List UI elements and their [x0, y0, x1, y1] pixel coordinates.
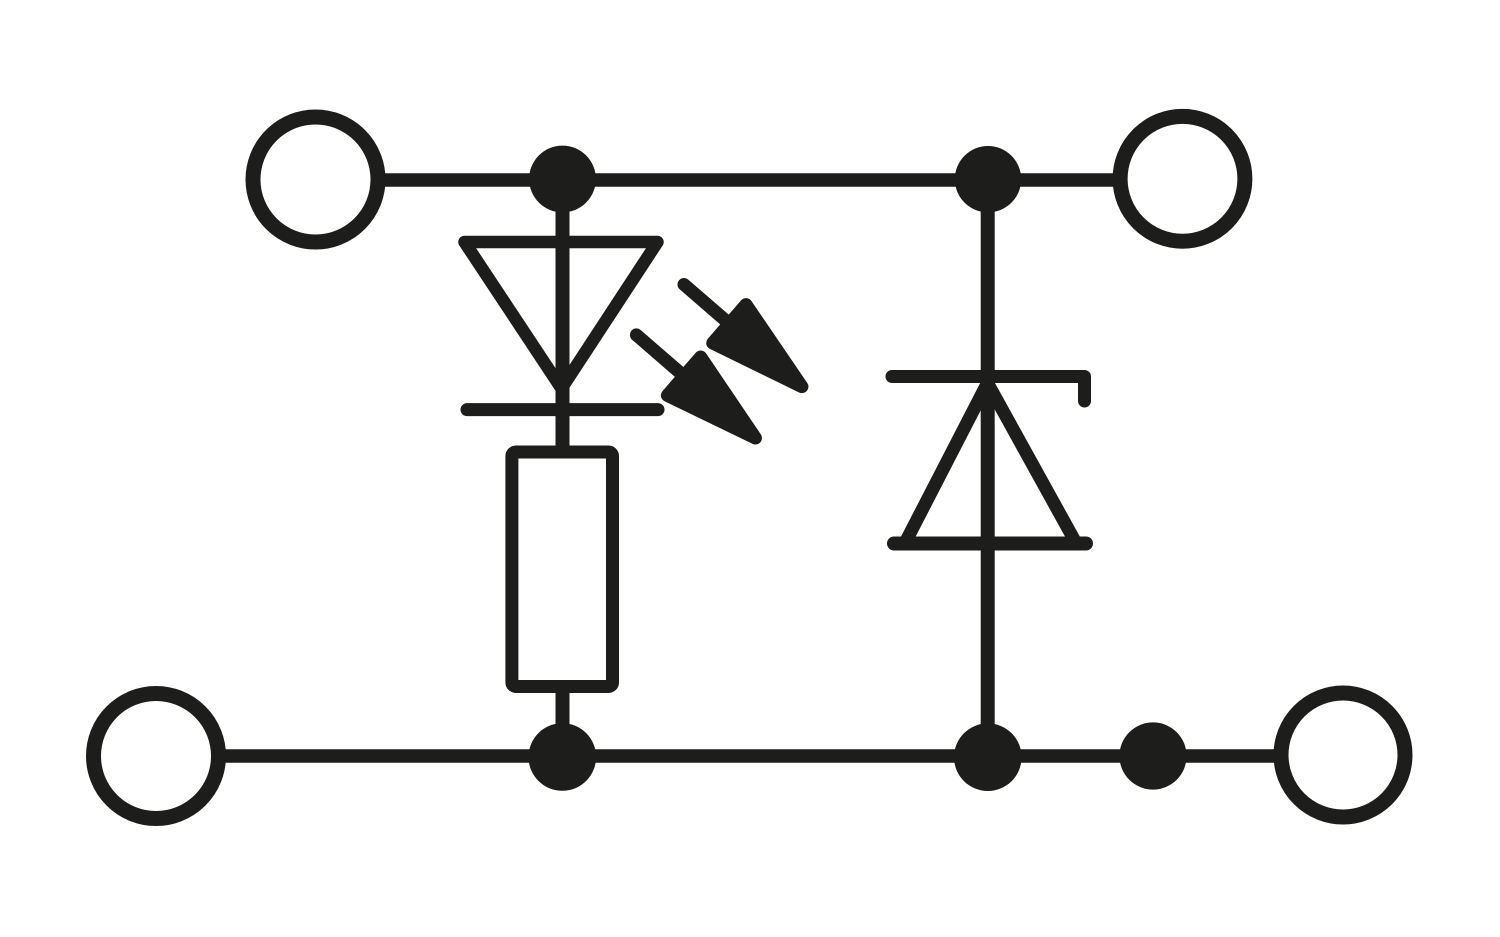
zener diode D2 cathode bar with hook: [892, 377, 1085, 402]
LED D1 cathode bar: [467, 403, 658, 416]
terminal circle bottom-left: [94, 694, 219, 819]
node A (top junction, LED branch): [529, 146, 596, 213]
node D (bottom junction, diode branch): [954, 723, 1022, 791]
LED light arrow 2: [620, 316, 772, 458]
zener diode D2 base line: [894, 537, 1086, 551]
wire top bus: [383, 173, 1115, 187]
resistor R1: [512, 452, 613, 687]
terminal circle bottom-right: [1281, 693, 1405, 817]
node B (top junction, diode branch): [955, 146, 1021, 212]
node C (bottom junction, LED branch): [529, 723, 597, 791]
terminal circle top-right: [1120, 116, 1245, 241]
node E (bottom wire dot): [1119, 722, 1186, 789]
LED D1 triangle (anode): [465, 242, 658, 389]
wire LED branch vertical (upper): [556, 179, 570, 451]
wire zener branch vertical: [981, 179, 995, 757]
LED light arrow 1: [667, 265, 818, 406]
wire bottom bus: [223, 749, 1277, 763]
terminal circle top-left: [253, 117, 378, 242]
wire LED branch vertical (lower): [556, 687, 570, 757]
zener diode D2 triangle: [905, 383, 1076, 543]
